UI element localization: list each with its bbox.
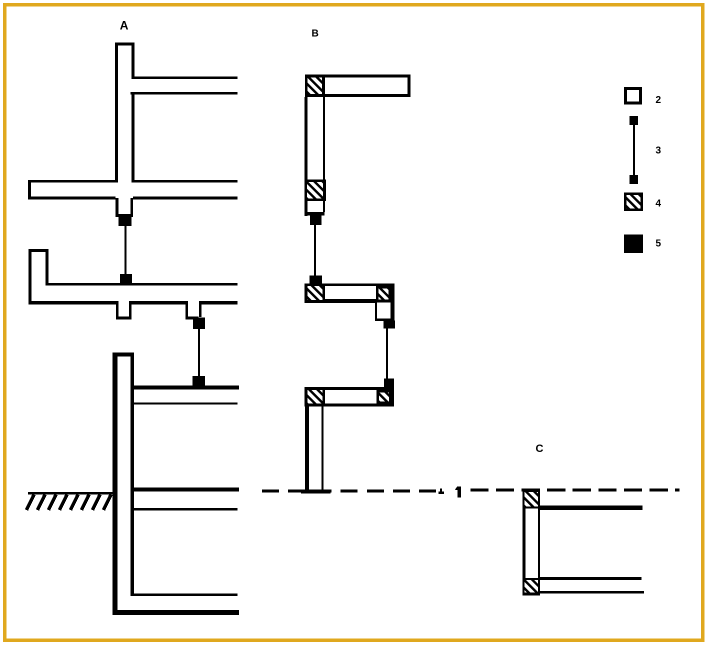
- beam A2 bottom line left: [28, 197, 116, 200]
- stub A3-1 right edge: [129, 301, 132, 319]
- svg-text:2: 2: [656, 95, 662, 106]
- svg-text:B: B: [312, 29, 319, 40]
- joint B2 hatched: [304, 180, 326, 202]
- slab A6 inner line: [134, 593, 238, 595]
- ground hatch ticks: [27, 495, 112, 511]
- beam A1 top line: [131, 77, 237, 79]
- connector A3: [193, 318, 205, 330]
- joint C1 hatched: [525, 492, 538, 506]
- column B1 left edge: [304, 97, 307, 216]
- stub A2 left edge: [116, 198, 119, 216]
- connector on beam A3: [120, 274, 132, 284]
- tie rod B1-B2: [314, 225, 316, 276]
- joint B6 hatched: [379, 392, 389, 401]
- column A1 right edge lower: [131, 94, 134, 183]
- beam C1 line: [540, 505, 642, 510]
- beam B3 body: [305, 387, 395, 406]
- slab A4 top line: [134, 386, 239, 390]
- beam A3 left upturn outer edge: [28, 249, 31, 305]
- beam B2 body: [305, 284, 395, 303]
- column B2 right edge: [321, 406, 323, 491]
- legend symbol 2 open square: [624, 87, 642, 105]
- beam A2 bottom line right: [133, 197, 238, 200]
- slab A4 bottom line: [134, 403, 238, 405]
- wall A top cap: [113, 352, 135, 356]
- beam A3 left upturn top cap: [28, 249, 48, 252]
- tie rod B2-B3: [386, 328, 388, 378]
- svg-text:C: C: [536, 443, 544, 455]
- connector A2: [119, 217, 132, 226]
- tie rod A2-A3: [124, 226, 126, 274]
- stub B2 body: [375, 302, 394, 321]
- beam A3 top line: [46, 283, 238, 285]
- stub A3-2 bottom cap: [186, 317, 199, 320]
- stub A3-2 right edge: [199, 301, 202, 317]
- ground surface line: [28, 492, 113, 495]
- label 1: [457, 486, 461, 497]
- connector on slab A4: [193, 376, 206, 387]
- connector on beam B3: [384, 379, 394, 389]
- beam A3 left upturn inner edge: [46, 252, 49, 285]
- legend symbol 4 hatched square: [624, 193, 643, 212]
- column A1 left edge: [115, 43, 118, 183]
- beam B1 body: [305, 74, 411, 97]
- slab C top line: [540, 577, 641, 580]
- slab A5 top line: [134, 487, 239, 491]
- connector B1: [310, 215, 322, 225]
- column B1 right edge: [323, 97, 325, 212]
- svg-text:A: A: [120, 19, 129, 33]
- joint B4 hatched: [378, 288, 388, 299]
- wall A right edge: [131, 352, 134, 596]
- column B2 left edge: [305, 406, 309, 491]
- beam A3 bottom line seg1: [28, 301, 118, 304]
- footing B: [301, 489, 331, 493]
- joint C2 hatched: [525, 580, 538, 593]
- slab A6 outer line: [113, 610, 240, 615]
- connector on beam B2: [310, 276, 323, 284]
- joint B3 hatched: [308, 286, 323, 300]
- tie rod A3-A4: [198, 329, 200, 378]
- beam A2 top line right: [134, 180, 237, 183]
- stub A3-1 left edge: [116, 301, 119, 319]
- joint B5 hatched: [308, 390, 323, 403]
- svg-text:4: 4: [656, 199, 662, 210]
- legend symbol 3 tie rod: [630, 116, 639, 125]
- wall A left edge: [113, 352, 118, 615]
- ground line dashed left: [262, 489, 437, 492]
- legend symbol 5 solid square: [624, 234, 643, 253]
- connector B2: [384, 320, 395, 328]
- stub A2 right edge: [130, 198, 133, 216]
- beam A2 left cap: [28, 180, 31, 200]
- beam A3 bottom line seg2: [129, 301, 188, 304]
- slab A5 bottom line: [134, 508, 238, 510]
- svg-text:3: 3: [656, 146, 662, 157]
- svg-text:5: 5: [656, 239, 662, 250]
- column A1 right edge upper: [131, 43, 134, 79]
- stub A3-2 left edge: [186, 301, 189, 319]
- section arrow: [440, 488, 442, 491]
- column A1 top cap: [115, 43, 134, 46]
- ground line dashed right: [470, 488, 679, 491]
- column C body: [522, 490, 540, 596]
- column B1 bottom cap: [304, 212, 324, 215]
- beam A1 bottom line: [131, 92, 238, 94]
- beam A2 top line left: [28, 180, 115, 183]
- slab C bottom line: [540, 591, 644, 594]
- joint B1 hatched: [308, 77, 323, 94]
- beam A3 bottom line seg3: [201, 301, 237, 304]
- stub A2 bottom cap: [116, 214, 134, 217]
- stub A3-1 bottom cap: [116, 317, 131, 320]
